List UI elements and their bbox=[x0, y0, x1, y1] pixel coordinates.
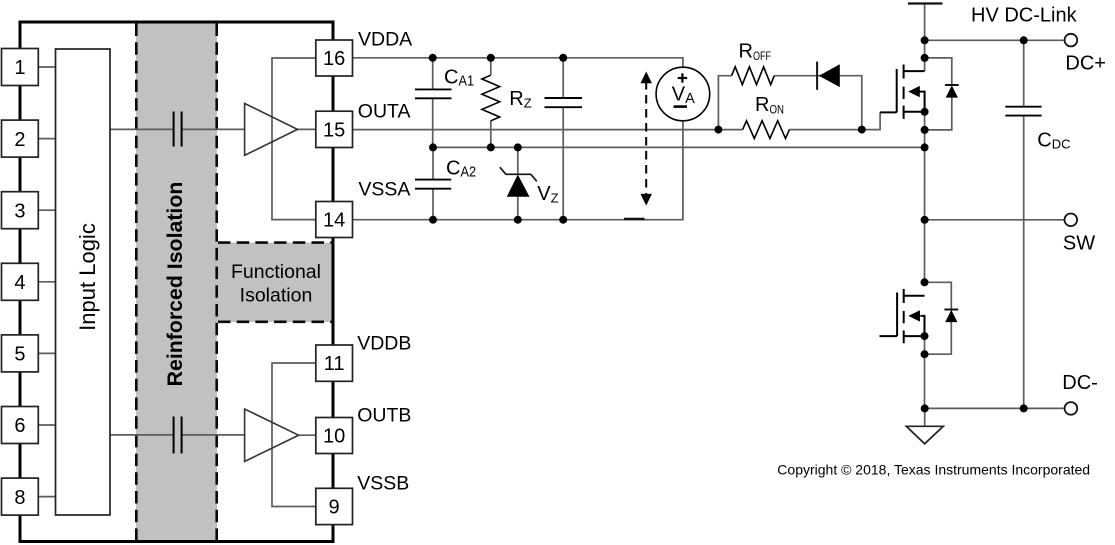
wire VSSA rail from pin14 to VA source bottom bbox=[353, 121, 683, 220]
svg-text:VDDA: VDDA bbox=[358, 29, 412, 51]
svg-text:Functional: Functional bbox=[231, 261, 321, 283]
bypass capacitor plates bbox=[545, 98, 583, 107]
wire bypass cap bottom lead bbox=[562, 108, 564, 220]
pin box 10 bbox=[316, 418, 353, 454]
svg-text:VSSB: VSSB bbox=[357, 473, 409, 495]
terminal DC- bbox=[1065, 402, 1078, 415]
pin box 2 bbox=[2, 120, 39, 157]
pin box 14 bbox=[316, 202, 353, 238]
pin box 4 bbox=[2, 263, 39, 300]
dashed left edge of reinforced isolation band bbox=[135, 24, 138, 541]
wire bracket pin11 to pin9 bbox=[272, 363, 316, 507]
buffer B (driver triangle) bbox=[245, 409, 299, 462]
wire buffer A output to pin 15 bbox=[298, 128, 316, 130]
capacitor CDC plates bbox=[1005, 107, 1041, 116]
wire ROFF branch up from OUTA node bbox=[718, 76, 731, 130]
pin box 6 bbox=[2, 407, 39, 444]
pin box 3 bbox=[2, 192, 39, 229]
wire CDC top lead bbox=[1023, 40, 1025, 106]
pin box 8 bbox=[2, 478, 39, 515]
junction node ground tee bbox=[921, 404, 929, 412]
svg-text:VZ: VZ bbox=[537, 183, 558, 206]
Input Logic block bbox=[56, 49, 111, 515]
junction node gate drive bbox=[858, 126, 866, 134]
junction node mid-VZ bbox=[514, 143, 522, 151]
voltage source VA circle bbox=[656, 67, 710, 121]
wire mid rail from CA1 bottom to high-side MOSFET source bbox=[433, 146, 925, 148]
high-side body diode bar bbox=[945, 84, 959, 86]
svg-text:5: 5 bbox=[14, 344, 25, 366]
isolation capacitor A plates bbox=[174, 112, 182, 147]
resistor ROFF zigzag bbox=[732, 67, 775, 85]
wire pin4 to input logic bbox=[38, 281, 55, 283]
wire low-side source down to ground rail bbox=[924, 336, 926, 408]
svg-text:VDDB: VDDB bbox=[357, 333, 411, 355]
wire VZ top lead bbox=[517, 147, 519, 174]
svg-text:DC-: DC- bbox=[1062, 372, 1098, 394]
wire high-side body diode branch bbox=[925, 58, 952, 85]
svg-text:2: 2 bbox=[14, 129, 25, 151]
ground symbol bbox=[906, 426, 943, 444]
wire RZ top lead bbox=[490, 58, 492, 75]
wire CA2 bottom lead bbox=[432, 190, 434, 220]
svg-text:RZ: RZ bbox=[509, 88, 531, 111]
junction node VDDA-CA1 bbox=[429, 54, 437, 62]
wire CA1 top lead bbox=[432, 58, 434, 89]
junction node VSSA-CA2 bbox=[429, 216, 437, 224]
wire low-side body diode branch bbox=[925, 282, 952, 309]
wire pin6 to input logic bbox=[38, 424, 55, 426]
pin box 1 bbox=[2, 49, 39, 86]
high-side MOSFET arrow bbox=[908, 86, 920, 97]
wire HV rail vertical above high-side MOSFET bbox=[924, 4, 926, 72]
svg-text:Reinforced Isolation: Reinforced Isolation bbox=[163, 182, 187, 387]
resistor RON zigzag bbox=[743, 121, 790, 139]
junction node mid rail tap bbox=[921, 143, 929, 151]
junction node OUTA-RON bbox=[714, 126, 722, 134]
wire pin5 to input logic bbox=[38, 352, 55, 354]
svg-text:1: 1 bbox=[14, 57, 25, 79]
wire low-side body diode bottom return bbox=[925, 322, 952, 355]
svg-text:11: 11 bbox=[324, 353, 345, 375]
supply rail stub bar bbox=[908, 2, 943, 4]
low-side body diode body bbox=[945, 310, 957, 322]
isolation capacitor B plates bbox=[174, 417, 182, 454]
junction node VDDA-RZ bbox=[487, 54, 495, 62]
svg-text:CA1: CA1 bbox=[444, 66, 474, 89]
svg-text:6: 6 bbox=[14, 415, 25, 437]
low-side body diode bar bbox=[944, 309, 958, 311]
Functional Isolation gray box bbox=[217, 243, 332, 323]
svg-text:CDC: CDC bbox=[1037, 130, 1070, 152]
svg-text:VSSA: VSSA bbox=[358, 179, 410, 201]
pin box 9 bbox=[316, 488, 353, 524]
svg-text:16: 16 bbox=[323, 48, 345, 70]
wire RON right lead bbox=[789, 129, 861, 131]
pin box 11 bbox=[316, 345, 353, 381]
pin box 16 bbox=[316, 40, 353, 76]
wire input logic to isolation cap A left plate bbox=[110, 128, 173, 130]
svg-text:HV DC-Link: HV DC-Link bbox=[971, 5, 1078, 27]
wire isolation cap A right plate to buffer A input bbox=[182, 128, 244, 130]
pin box 15 bbox=[316, 111, 353, 147]
VA plus sign bbox=[678, 73, 688, 82]
svg-text:15: 15 bbox=[323, 120, 345, 142]
junction node VSSA-bypass bbox=[559, 216, 567, 224]
svg-text:Input Logic: Input Logic bbox=[75, 223, 100, 331]
junction node DC+ tee bbox=[921, 36, 929, 44]
diode D1 body bbox=[819, 64, 840, 87]
wire pin2 to input logic bbox=[38, 138, 55, 140]
junction node Q1 source stub bbox=[921, 108, 929, 116]
junction node VDDA-bypass bbox=[559, 54, 567, 62]
zener VZ bar bbox=[500, 167, 537, 181]
wire buffer B output to pin 10 bbox=[299, 434, 316, 436]
dash artifact on VSSA rail bbox=[624, 218, 645, 220]
pin box 5 bbox=[2, 335, 39, 372]
svg-text:4: 4 bbox=[14, 272, 25, 294]
junction node CDC top bbox=[1020, 36, 1028, 44]
zener VZ body bbox=[507, 175, 530, 197]
terminal DC+ bbox=[1065, 34, 1078, 47]
wire ROFF to diode and down to gate node bbox=[774, 76, 862, 130]
junction node mid-CA2 bbox=[429, 143, 437, 151]
wire pin8 to input logic bbox=[38, 496, 55, 498]
wire bypass cap top lead bbox=[562, 58, 564, 97]
wire high-side body diode bottom return bbox=[925, 98, 952, 130]
junction node SW tee bbox=[921, 216, 929, 224]
svg-text:Copyright © 2018, Texas Instru: Copyright © 2018, Texas Instruments Inco… bbox=[777, 462, 1090, 478]
junction node Q2 diode return bbox=[921, 350, 929, 358]
terminal SW bbox=[1065, 214, 1078, 227]
svg-text:14: 14 bbox=[323, 210, 345, 232]
wire bracket pin16 to pin14 bbox=[272, 58, 316, 220]
svg-text:DC+: DC+ bbox=[1065, 52, 1106, 74]
svg-text:Isolation: Isolation bbox=[240, 284, 313, 306]
wire VZ bottom lead bbox=[517, 197, 519, 220]
wire CA1 bottom lead bbox=[432, 99, 434, 147]
wire SW rail bbox=[925, 219, 1065, 221]
wire gate step to high-side MOSFET bbox=[862, 112, 880, 129]
wire high-side source vertical down to low-side drain bbox=[924, 112, 926, 282]
wire ground lead bbox=[924, 408, 926, 426]
wire pin3 to input logic bbox=[38, 209, 55, 211]
wire DC- ground rail bbox=[925, 407, 1065, 409]
svg-text:SW: SW bbox=[1063, 232, 1095, 254]
svg-text:OUTA: OUTA bbox=[358, 101, 411, 123]
svg-text:10: 10 bbox=[323, 426, 345, 448]
capacitor CA1 plates bbox=[415, 89, 452, 98]
wire CDC bottom lead bbox=[1023, 116, 1025, 408]
junction node mid-RZ bbox=[487, 143, 495, 151]
junction node Q1 drain/diode bbox=[921, 54, 929, 62]
junction node Q2 source stub bbox=[921, 332, 929, 340]
isolation barrier gray band (Reinforced Isolation) bbox=[136, 24, 217, 541]
buffer A (driver triangle) bbox=[245, 103, 298, 155]
junction node VSSA-VZ bbox=[514, 216, 522, 224]
wire input logic to isolation cap B left plate bbox=[110, 434, 173, 436]
svg-text:ROFF: ROFF bbox=[739, 41, 771, 64]
diode D1 cathode bar bbox=[816, 62, 818, 90]
svg-text:8: 8 bbox=[14, 487, 25, 509]
svg-text:OUTB: OUTB bbox=[357, 404, 411, 426]
wire VDDA rail from pin16 to VA source top bbox=[353, 58, 683, 68]
capacitor CA2 plates bbox=[415, 180, 451, 189]
low-side MOSFET Q2 bbox=[880, 289, 925, 343]
svg-text:9: 9 bbox=[329, 497, 340, 519]
high-side body diode body bbox=[946, 85, 958, 97]
dashed bottom edge of functional isolation box bbox=[218, 320, 332, 323]
wire DC+ rail bbox=[925, 39, 1065, 41]
dashed top edge of functional isolation box bbox=[218, 241, 332, 244]
resistor RZ zigzag bbox=[482, 75, 500, 121]
dashed right edge of reinforced isolation band bbox=[215, 24, 218, 541]
wire RZ bottom lead bbox=[490, 121, 492, 148]
svg-text:CA2: CA2 bbox=[446, 158, 476, 181]
junction node CDC bottom bbox=[1020, 404, 1028, 412]
junction node Q2 drain/diode bbox=[921, 278, 929, 286]
high-side MOSFET Q1 bbox=[880, 65, 925, 119]
wire CA2 top lead bbox=[432, 147, 434, 178]
svg-text:RON: RON bbox=[755, 94, 784, 117]
IC package outline bbox=[20, 22, 333, 542]
low-side MOSFET arrow bbox=[908, 310, 920, 321]
svg-text:3: 3 bbox=[14, 200, 25, 222]
wire RON left lead bbox=[718, 129, 742, 131]
dashed measurement arrow bbox=[645, 81, 647, 197]
wire pin1 to input logic bbox=[38, 66, 55, 68]
VA minus sign bbox=[674, 105, 688, 108]
wire OUTA rail from pin15 to RON node bbox=[353, 129, 719, 131]
wire isolation cap B right plate to buffer B input bbox=[182, 434, 244, 436]
junction node Q1 diode return bbox=[921, 126, 929, 134]
